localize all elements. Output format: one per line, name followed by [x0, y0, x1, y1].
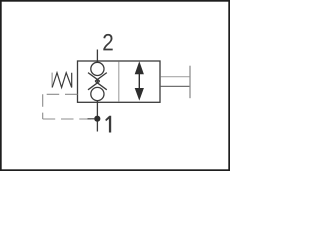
spring zigzag: [52, 73, 71, 88]
check valve CV2 ball: [91, 87, 104, 100]
spring left stub: [51, 73, 53, 88]
port 1 label: [105, 116, 111, 133]
port 2 wire: [96, 50, 98, 63]
port 1 wire: [96, 101, 98, 132]
valve body box: [78, 61, 161, 102]
wire between seats: [96, 79, 98, 83]
port 2 label: [103, 34, 112, 50]
actuator rod upper line: [161, 76, 190, 78]
pilot line horizontal upper: [43, 93, 78, 95]
flow arrow shaft: [138, 72, 140, 90]
cell divider: [118, 62, 120, 102]
check valve CV1 ball: [91, 62, 104, 75]
check valve CV2 seat: [88, 81, 107, 90]
check valve CV1 seat: [88, 73, 107, 82]
pilot line vertical: [42, 94, 44, 119]
actuator end bar: [189, 66, 191, 99]
actuator rod lower line: [161, 85, 190, 87]
pilot line end segment: [88, 118, 95, 120]
flow arrow head up: [135, 61, 144, 74]
pilot line horizontal lower: [43, 118, 91, 120]
image border frame: [1, 1, 229, 170]
junction node: [94, 116, 100, 122]
flow arrow head down: [135, 88, 144, 101]
